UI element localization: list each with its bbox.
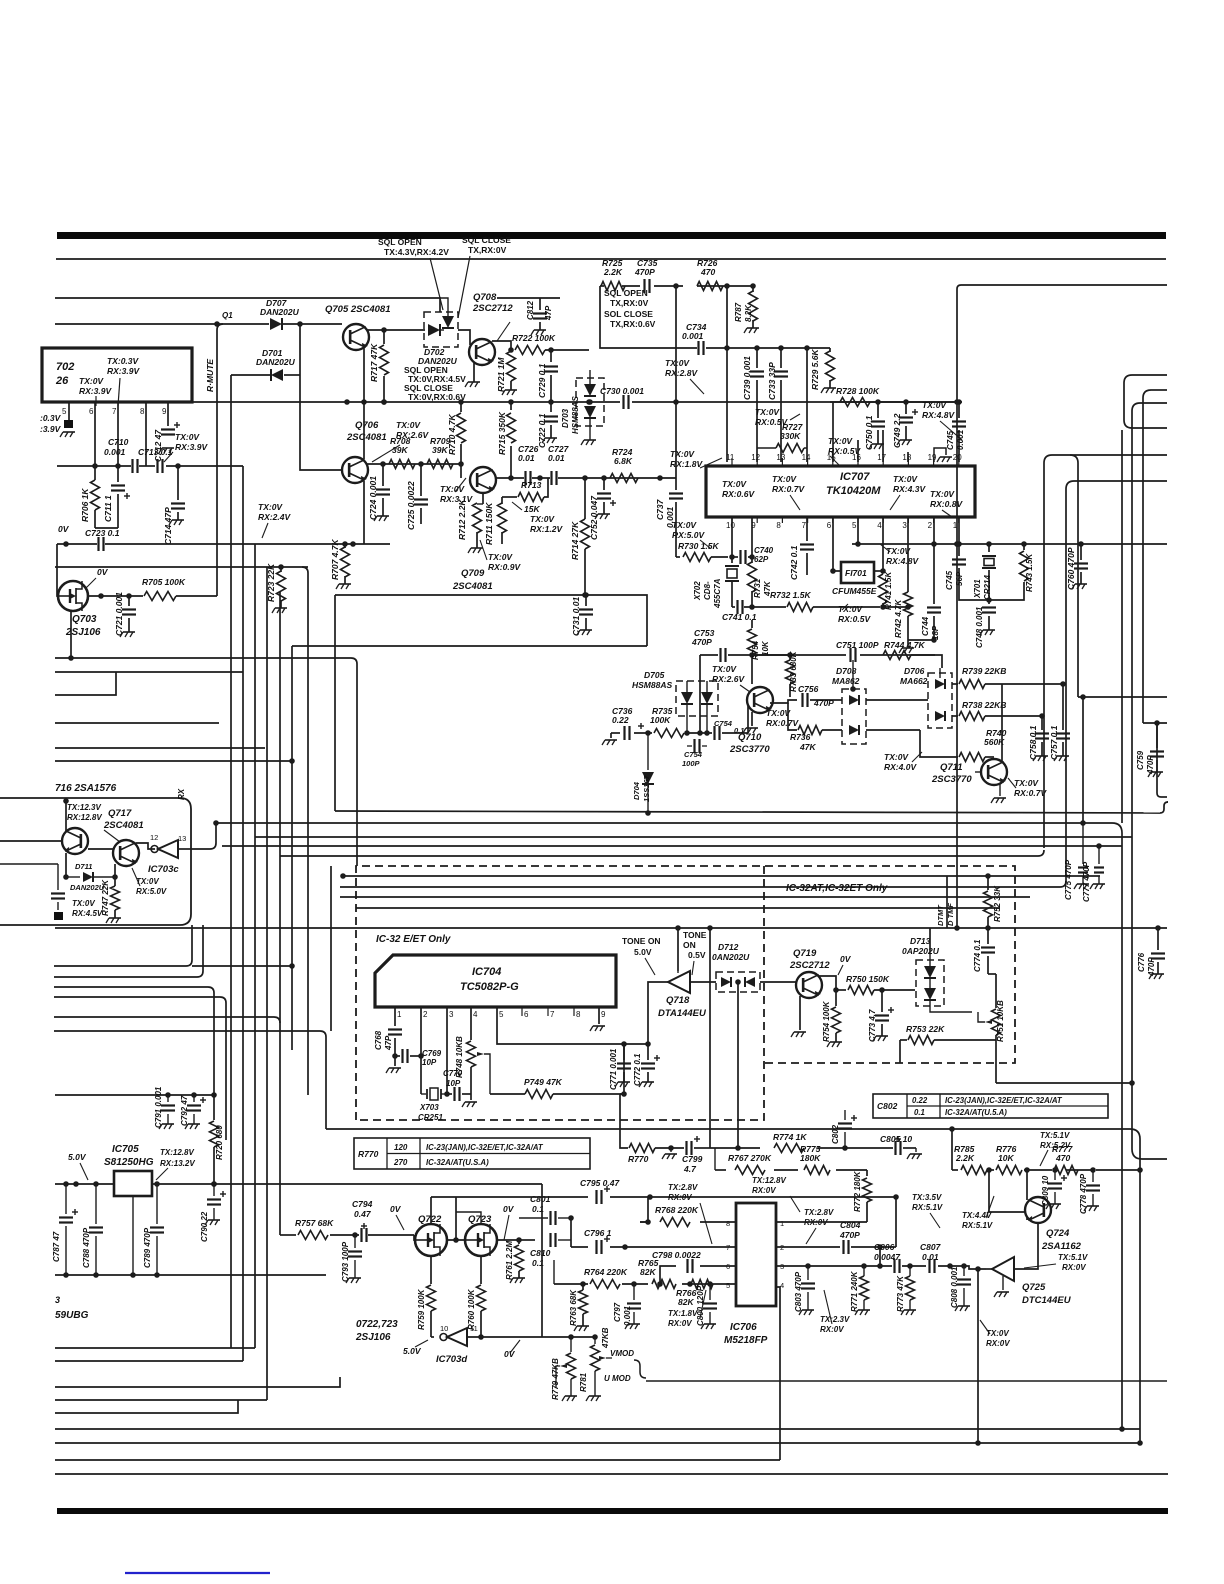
IC704 TC5082P-G [375,955,616,1007]
svg-text:C789 470P: C789 470P [143,1227,152,1268]
svg-text:Q1: Q1 [222,311,233,320]
svg-text:4: 4 [877,521,882,530]
resistor R754 100K at Q719 [835,990,837,1006]
IC707 TK10420M [706,466,975,517]
svg-text:16: 16 [852,453,861,462]
resistor R787 8.2K [752,286,754,292]
ground - R707 [339,583,351,585]
svg-text:DTC144EU: DTC144EU [1022,1295,1072,1306]
svg-text:RX:0V: RX:0V [752,1186,776,1195]
ground - C792 [188,1123,200,1125]
capacitor C805 10 electrolytic [894,1141,896,1155]
ground - C712 [162,447,174,449]
svg-text:R781: R781 [579,1372,588,1392]
IC706 M5218FP [736,1203,776,1306]
wire - left line y1031 corner down x326 [54,1030,320,1032]
potentiometer R779 47KB [570,1337,572,1352]
svg-text:TX:0V: TX:0V [1014,778,1039,788]
wire - pin16..18 stubs [857,440,859,462]
svg-text:C774 0.1: C774 0.1 [973,939,982,972]
wire - bundle y837 [255,836,1132,838]
capacitor C790 22 [213,1184,215,1196]
capacitor C791 0.001 [167,1095,169,1102]
svg-text:TX:0V: TX:0V [828,436,853,446]
ground - C750 [872,443,884,445]
svg-text:2SC2712: 2SC2712 [472,303,513,314]
svg-text:R752 33K: R752 33K [993,885,1002,922]
svg-text:D705: D705 [644,670,665,680]
ground - R729 [824,387,836,389]
svg-text:0.01: 0.01 [548,453,565,463]
svg-text:C807: C807 [920,1242,942,1252]
svg-text:R747 22K: R747 22K [101,879,110,916]
svg-text:0722,723: 0722,723 [356,1319,398,1330]
wire - vertical x957 DTMF run [956,289,958,928]
capacitor C756 470P [801,693,803,707]
svg-text:R728 100K: R728 100K [836,386,880,396]
wire - D713 bottom to R751 wiper [930,1000,972,1012]
svg-text:1SS167: 1SS167 [642,774,651,802]
svg-text:19: 19 [928,453,937,462]
wire - pin6 to FI701 left [833,517,841,571]
svg-text:R743 1.5K: R743 1.5K [1025,553,1034,592]
svg-text:X702: X702 [693,581,702,601]
svg-text:R705 100K: R705 100K [142,577,186,587]
svg-text:C754: C754 [684,750,703,759]
wire - y595 segment with corners [335,595,647,646]
svg-text:C724 0.001: C724 0.001 [368,476,378,520]
terminal - square pin below D711 [54,912,63,920]
svg-text:TX,RX:0.6V: TX,RX:0.6V [610,319,656,329]
svg-text:R706 1K: R706 1K [80,488,90,522]
wire - bottom run y1443 [55,1442,1140,1444]
svg-text:C802: C802 [831,1124,840,1144]
resistor R711 150K [501,497,503,504]
wire - vertical run x267 [266,567,268,1400]
capacitor C787 47 electrolytic [65,1184,67,1214]
ground - D703 [584,439,596,441]
svg-text:R768 220K: R768 220K [655,1205,699,1215]
svg-text:C754: C754 [714,719,733,728]
capacitor C807 0.01 [928,1259,930,1273]
svg-text:R714 27K: R714 27K [570,521,580,560]
svg-text:R742 4.7K: R742 4.7K [894,599,903,638]
svg-text:C733 33P: C733 33P [767,362,777,400]
capacitor C796 1 electrolytic [595,1240,597,1254]
wire - pin10 down to R730 line [731,517,733,557]
svg-text:Q706: Q706 [355,420,379,431]
svg-text:10: 10 [440,1324,448,1333]
resistor R760 100K [477,1285,486,1311]
resistor R735 100K [654,729,684,738]
svg-text:SQL OPEN: SQL OPEN [604,288,648,298]
wire - Q723 top stub [456,1212,481,1224]
svg-text:3: 3 [55,1295,60,1305]
svg-text:C711 1: C711 1 [103,495,113,522]
svg-text:R773 47K: R773 47K [896,1275,905,1312]
svg-text:TX:12.8V: TX:12.8V [752,1176,786,1185]
IC704 pins [394,1006,396,1008]
svg-text:8: 8 [726,1219,730,1228]
svg-text:D TMF: D TMF [946,903,955,926]
wire - pin3 row [776,1265,892,1267]
wire - Q706 emitter down [363,481,365,544]
wire - C774/R751 tie [988,973,996,975]
svg-text::0.3V: :0.3V [40,413,62,423]
transistor Q709 2SC4081 [470,467,496,493]
wire - bundle y856 riser x1044 to y455 margin [1043,463,1045,848]
wire - x737 vertical from D712 down [737,982,739,1148]
svg-text:18P: 18P [931,625,940,640]
svg-text:7: 7 [802,521,807,530]
svg-text:R770: R770 [358,1149,379,1159]
svg-text:17: 17 [877,453,886,462]
capacitor C737 0.001 series in x676 [669,492,683,494]
wire - exit line y1400 [55,1399,267,1401]
resistor R736 47K [788,703,797,730]
svg-text:TX:0V: TX:0V [488,552,513,562]
svg-text:TX:0V: TX:0V [893,474,918,484]
wire - bundle y813 hooking out top right [335,811,1160,813]
svg-text:18: 18 [902,453,911,462]
svg-text:R720 680: R720 680 [215,1125,224,1160]
wire - audio node y466 [57,465,131,467]
svg-text:DTA144EU: DTA144EU [658,1008,707,1019]
svg-text:14: 14 [802,453,811,462]
svg-text:C729 0.1: C729 0.1 [537,363,547,398]
ground - R723 [275,607,287,609]
ground - R721 [505,389,517,391]
capacitor C804 470P [842,1240,844,1254]
ground - C731 [580,629,592,631]
svg-text:Q703: Q703 [72,614,97,625]
svg-text:D704: D704 [632,781,641,800]
transistor Q722 2SJ106 [415,1224,447,1256]
wire - bundle y823 curving down at x1122 [216,822,1112,824]
svg-text:9: 9 [601,1010,606,1019]
svg-text:11: 11 [726,453,735,462]
resistor R728 100K [840,398,870,407]
resistor R730 1.5K [676,556,680,558]
svg-text:R730 1.5K: R730 1.5K [678,541,719,551]
wire - C753 left leg [699,655,701,733]
svg-text:D711: D711 [75,862,92,871]
svg-text:TX:1.8V: TX:1.8V [668,1309,698,1318]
wire - UMOD line [646,1380,1167,1382]
IC702 [42,348,192,402]
capacitor C754 100P lower [687,745,692,747]
svg-text:R753 22K: R753 22K [906,1024,945,1034]
svg-text:3: 3 [902,521,907,530]
svg-text:Q723: Q723 [468,1214,492,1225]
svg-text:R733 680K: R733 680K [789,650,798,692]
svg-text:2: 2 [928,521,933,530]
svg-text:TC5082P-G: TC5082P-G [460,981,519,993]
wire - left bundle y987 bend down x214 to 5V rail [54,986,208,988]
svg-text:TONE: TONE [683,930,707,940]
svg-text:R764 220K: R764 220K [584,1267,628,1277]
resistor R708 39K [389,460,415,469]
wire - x300 vertical to Q706 base [300,324,342,470]
svg-text:TX:0V: TX:0V [79,376,104,386]
svg-text:6: 6 [827,521,832,530]
svg-text:RX:4.8V: RX:4.8V [886,556,919,566]
svg-text:RX:0V: RX:0V [668,1193,692,1202]
wire - exit line y1387 [55,1377,340,1387]
svg-text:C714 47P: C714 47P [163,507,173,545]
svg-text:IC-23(JAN),IC-32E/ET,IC-32A/AT: IC-23(JAN),IC-32E/ET,IC-32A/AT [426,1143,544,1152]
resistor R771 240K vertical [863,1266,865,1276]
svg-text:RX:12.8V: RX:12.8V [67,813,102,822]
crystal X702 CDB-455C7A [731,557,733,563]
svg-text:C808 0.001: C808 0.001 [950,1266,959,1308]
wire - R713 feedback [502,496,517,498]
wire - bundle y887 [340,886,1060,888]
svg-text:IC-32 E/ET Only: IC-32 E/ET Only [376,934,451,945]
wire - Q711 emitter ground [999,783,1001,796]
wire - bundle y846 [222,845,1122,847]
wire - Q717 collector to IC703c [136,843,155,849]
wire - squelch line y544 [57,543,97,545]
svg-text:10: 10 [726,521,735,530]
wire - right entry y797 corner up to y723 [1161,796,1167,798]
wire - R750 line [836,989,846,991]
wire - vertical x1124 down to y428 bend [1123,383,1125,420]
wire - x571 tie down to C796 line [570,1218,572,1247]
wire - pin2 to C804 [776,1246,840,1248]
svg-text:2SA1162: 2SA1162 [1041,1241,1082,1252]
svg-text:0.01: 0.01 [922,1252,939,1262]
svg-text:R707 4.7K: R707 4.7K [330,539,340,580]
svg-text:8.2K: 8.2K [744,304,753,322]
svg-text:470P: 470P [839,1230,860,1240]
wire - y1083 run to x1133 [996,1082,1132,1084]
capacitor C758 0.1 [1041,725,1043,730]
resistor R729 5.6K on pin14 branch [829,348,831,352]
wire - IF line y401 to pin15 block [830,401,962,403]
svg-text:D706: D706 [904,666,925,676]
svg-text:RX:0.8V: RX:0.8V [930,499,963,509]
wire - Q709 emitter down [482,492,484,504]
wire - y655 noise line [770,654,846,656]
svg-text:IC-32AT,IC-32ET Only: IC-32AT,IC-32ET Only [786,883,888,894]
svg-text:TX:0V: TX:0V [670,449,695,459]
svg-text:R741 1.5K: R741 1.5K [884,571,893,610]
svg-text:5.0V: 5.0V [68,1152,87,1162]
wire - IC702 pin6 down [94,402,96,466]
diode pair D708 MA862 dashed box [842,689,866,744]
svg-text:P749 47K: P749 47K [524,1077,563,1087]
wire - bundle y876 [343,875,1100,877]
svg-text:0V: 0V [390,1204,402,1214]
svg-text:RX:2.6V: RX:2.6V [712,674,745,684]
svg-text:TX:0V: TX:0V [396,420,421,430]
wire - bottom run y1474 [55,1473,1168,1475]
wire - horizontal run under top bar [56,258,1166,260]
svg-text:0V: 0V [504,1349,516,1359]
resistor R723 22K [280,567,282,572]
wire - pin4 loop down [776,1287,780,1460]
svg-text:C760 470P: C760 470P [1066,547,1076,590]
svg-text:MA862: MA862 [832,676,860,686]
transistor Q703 2SJ106 [58,581,88,611]
svg-text:R770: R770 [628,1154,649,1164]
svg-text:IC703d: IC703d [436,1354,467,1365]
wire - Q706 base bias node [367,463,461,465]
svg-text:702: 702 [56,361,74,373]
svg-text:5: 5 [852,521,857,530]
svg-text:82K: 82K [640,1267,656,1277]
ground - Q719 emitter [794,1031,806,1033]
wire - y428 to right margin [1132,427,1167,429]
capacitor C802 electrolytic [844,1110,846,1120]
svg-text:Q719: Q719 [793,948,817,959]
svg-text:VMOD: VMOD [610,1349,634,1358]
svg-text:TX:0V: TX:0V [258,502,283,512]
wire - left bus y567 [55,566,308,568]
svg-text:0AP202U: 0AP202U [902,946,940,956]
wire - left bus y761 [55,760,292,762]
resistor R709 39K [427,460,453,469]
svg-text:C778 470P: C778 470P [1079,1173,1088,1214]
wire - R741 bottom tie [883,606,908,608]
capacitor C745 56P [958,544,960,556]
capacitor C759 470P [1156,723,1158,748]
svg-text:C751 100P: C751 100P [836,640,879,650]
wire - C812 top feed [497,297,560,299]
svg-text:R750 150K: R750 150K [846,974,890,984]
svg-text:R763 68K: R763 68K [569,1289,578,1326]
wire - pin13 x781 with C733 [780,348,782,368]
svg-text:0.001: 0.001 [623,1305,632,1326]
wire - box to bundle corner [191,848,210,850]
svg-text:TX:0V: TX:0V [838,604,863,614]
resistor R739 22KB [959,680,985,689]
svg-text:12: 12 [751,453,760,462]
capacitor C793 100P [354,1235,356,1248]
capacitor C752 0.047 electrolytic [603,478,605,490]
crystal X701 CR214 [988,544,990,552]
svg-text:C740: C740 [754,546,774,555]
svg-text:TX:0V: TX:0V [712,664,737,674]
wire - y1129 long run curving into x1140 [326,1128,1130,1130]
svg-text:C797: C797 [613,1302,622,1322]
svg-text:TX:12.3V: TX:12.3V [67,803,101,812]
wire - Q722 drain down to R759 [430,1257,432,1284]
wire - pin19 loop to ground [934,448,946,462]
svg-text:R722 100K: R722 100K [512,333,556,343]
wire - Q703 source down to y658 [70,611,72,658]
svg-text:1: 1 [397,1010,402,1019]
svg-text:TX:12.8V: TX:12.8V [160,1148,194,1157]
wire - top right y285 with corner down x957 [961,284,1167,286]
wire - y802 exit right [1167,801,1168,803]
wire - vertical run x292 [291,646,293,1050]
svg-text:13: 13 [178,834,186,843]
wire - pin8 input [640,1221,650,1223]
capacitor C771 0.001 [623,1044,625,1060]
svg-text:TONE ON: TONE ON [622,936,661,946]
diode pair D706 MA662 dashed box [928,673,952,728]
svg-text:R739 22KB: R739 22KB [962,666,1006,676]
svg-text:FI701: FI701 [845,568,867,578]
svg-text:C805 10: C805 10 [880,1134,912,1144]
svg-text:R738 22KB: R738 22KB [962,700,1006,710]
wire - TONE line into Q718 top [677,971,679,973]
capacitor C803 470P [807,1266,809,1280]
svg-text:R772 180K: R772 180K [853,1170,862,1212]
svg-text:120: 120 [394,1143,408,1152]
potentiometer R748 10KB [467,1041,476,1067]
resistor R776 10K [996,1166,1022,1175]
ground - C759 [1151,771,1163,773]
resistor R774 1K [774,1144,804,1153]
resistor R759 100K [427,1285,436,1311]
wire - right entry y375 corner to x1125 [1132,374,1167,376]
resistor R722 100K [515,346,545,355]
svg-text:D703: D703 [561,408,570,428]
ground - C768 node [389,1067,401,1069]
svg-text:DAN202U: DAN202U [70,883,105,892]
wire - vertical x978 down to y1443 [977,1269,979,1443]
capacitor - left edge cap [57,864,59,890]
svg-text:15K: 15K [524,504,540,514]
svg-text:8: 8 [776,521,781,530]
svg-text:0.001: 0.001 [665,506,675,528]
svg-text:RX:0.9V: RX:0.9V [488,562,521,572]
svg-text:C812: C812 [526,300,535,320]
svg-text:C742 0.1: C742 0.1 [789,545,799,580]
ground - C770/X703 node [470,1094,472,1100]
svg-text:C794: C794 [352,1199,373,1209]
svg-text:SQL CLOSE: SQL CLOSE [462,235,511,245]
svg-text:0.47: 0.47 [354,1209,372,1219]
wire - x676 main vertical [675,286,677,478]
svg-text:TX:0V: TX:0V [722,479,747,489]
ground - C721 [123,631,135,633]
ground - R773 [904,1309,916,1311]
wire - Q719 emitter to ground [799,996,801,1030]
capacitor C736 0.22 [623,726,625,740]
wire - ground rail y1275 [55,1274,326,1276]
transistor Q719 2SC2712 [796,972,822,998]
ground - C776 [1152,973,1164,975]
wire - Q725 to Q724 bottom [1014,1222,1038,1269]
svg-text:R767 270K: R767 270K [728,1153,772,1163]
capacitor C753 470P [700,654,718,656]
svg-text:47KB: 47KB [601,1327,610,1349]
svg-text:TX:0V,RX:0.6V: TX:0V,RX:0.6V [408,392,466,402]
svg-text:47P: 47P [384,1035,393,1051]
resistor R705 100K [144,592,176,601]
resistor R753 22K [900,1039,907,1041]
svg-text:C792 47: C792 47 [180,1095,189,1126]
ground - IC704 pin9 [593,1025,605,1027]
capacitor C801 0.1 [519,1217,548,1219]
svg-text:39K: 39K [392,445,408,455]
wire - main bus y402 [55,401,620,403]
box - RX mute unit [0,798,191,925]
diode pair D713 0AP202U dashed box [916,960,944,1006]
svg-text:7: 7 [550,1010,555,1019]
wire - left bundle y977 bend up x203 [54,976,197,978]
svg-text:C798 0.0022: C798 0.0022 [652,1250,701,1260]
svg-text:C721 0.001: C721 0.001 [114,592,124,636]
svg-text:RX:3.9V: RX:3.9V [175,442,208,452]
capacitor C774 0.1 [987,928,989,944]
wire - Q716 collector down to D711 [65,853,67,877]
wire - mic line y1235 [280,1234,296,1236]
